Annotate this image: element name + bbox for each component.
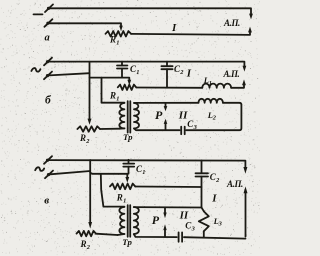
inductor L2 (199, 99, 223, 103)
P arrows (v) (163, 208, 166, 237)
capacitor C2 (b) (161, 62, 172, 88)
svg-text:А.П.: А.П. (226, 179, 243, 189)
resistor R2 (b) (77, 126, 100, 131)
svg-text:1: 1 (136, 69, 139, 76)
capacitor C1 (v) (123, 160, 134, 174)
loop II bottom-left (b) (134, 129, 180, 131)
loop II bottom right (v) (184, 237, 246, 238)
P arrows (b) (164, 103, 168, 130)
svg-text:Тр: Тр (123, 132, 133, 142)
wire R1b to L1 (136, 87, 202, 89)
wire T2b to junction (49, 73, 89, 75)
svg-text:А.П.: А.П. (223, 69, 240, 79)
svg-text:R: R (109, 91, 116, 101)
wire bus to transformer primary (v) (101, 174, 125, 207)
svg-text:II: II (179, 209, 189, 221)
arrow down A.P. v (243, 167, 247, 174)
resistor R1 (a) (106, 31, 132, 36)
transformer secondary (b) (134, 103, 139, 128)
terminal T2a (44, 19, 52, 27)
wire R1a to A.P. (131, 32, 250, 35)
transformer core (b) (128, 101, 131, 132)
transformer primary (b) (119, 103, 124, 128)
svg-text:1: 1 (142, 169, 145, 176)
wire top a (50, 8, 251, 14)
wire R2b to transformer (100, 128, 120, 130)
wire bus y78 (b) (90, 78, 130, 81)
svg-text:I: I (171, 22, 177, 34)
minus dash (34, 13, 43, 15)
svg-text:Тр: Тр (122, 237, 132, 247)
vertical wire to R2 tap (v) (89, 160, 91, 223)
tap arrow R2b (88, 119, 92, 125)
wire L1 to A.P. up arrow (231, 85, 244, 88)
wire up-arrow to loop (v) (245, 192, 247, 237)
svg-text:а: а (45, 32, 50, 43)
tap arrow R1v (125, 177, 129, 183)
inductor L3 (zigzag) (199, 211, 209, 231)
svg-text:R: R (109, 35, 116, 45)
transformer primary (v) (119, 207, 124, 234)
svg-text:II: II (178, 109, 188, 121)
wire to R1 tap a (50, 23, 122, 26)
loop II right+bottom (b) (186, 103, 241, 130)
loop II bottom left (v) (134, 234, 177, 237)
arrow down A.P. a (249, 14, 253, 20)
svg-text:R: R (80, 239, 87, 249)
svg-text:Р: Р (152, 213, 160, 227)
svg-text:R: R (116, 193, 123, 203)
svg-text:А.П.: А.П. (223, 18, 240, 28)
tap arrow R2v (88, 222, 92, 229)
wire top b (49, 62, 244, 67)
wire top v (49, 160, 245, 168)
tilde v (35, 167, 44, 171)
resistor R1 (v) (110, 184, 135, 190)
wire bus to transformer primary (b) (102, 78, 125, 103)
resistor R2 (v) (77, 231, 96, 236)
terminal T1v (44, 156, 52, 164)
capacitor C1 (b) (117, 62, 127, 78)
transformer secondary (v) (134, 207, 139, 234)
terminal T2v (45, 171, 53, 179)
tilde b (31, 68, 40, 72)
transformer core (v) (128, 205, 131, 237)
inductor L1 (202, 84, 231, 88)
arrow up A.P. b (242, 79, 246, 85)
primary bottom lead (v) (118, 234, 125, 235)
arrow down A.P. b (243, 66, 247, 72)
capacitor C3 (b) (181, 127, 185, 135)
terminal T2b (44, 72, 52, 80)
svg-text:I: I (211, 193, 217, 205)
svg-text:R: R (79, 133, 86, 143)
svg-text:1: 1 (209, 80, 212, 87)
loop II top side (v) (134, 206, 202, 208)
terminal T1b (44, 58, 52, 66)
capacitor C3 (v) (179, 232, 183, 241)
capacitor C2 (v) (196, 160, 209, 207)
loop II top side (b) (134, 102, 199, 104)
tap arrow R1b (127, 80, 131, 86)
arrow up A.P. v (244, 186, 248, 193)
svg-text:в: в (44, 194, 49, 206)
primary bottom lead (b) (120, 127, 125, 129)
resistor R1 (b) (118, 85, 136, 90)
arrow up A.P. a (248, 27, 252, 33)
svg-text:1: 1 (116, 40, 119, 47)
tap arrow R1a (119, 26, 123, 32)
svg-text:1: 1 (116, 96, 119, 103)
wire R2v to transformer (96, 234, 118, 235)
L3 bottom lead (203, 231, 205, 237)
wire bus y174 (v) (90, 173, 127, 178)
wire T2v to junction (50, 171, 90, 174)
svg-text:I: I (186, 68, 192, 80)
vertical wire to R2 tap (b) (89, 62, 91, 120)
svg-text:Р: Р (155, 108, 163, 122)
terminal T1a (45, 4, 53, 12)
svg-text:1: 1 (123, 198, 126, 205)
wire R1v to C2 node (135, 186, 201, 189)
lead to L3 (202, 208, 204, 212)
